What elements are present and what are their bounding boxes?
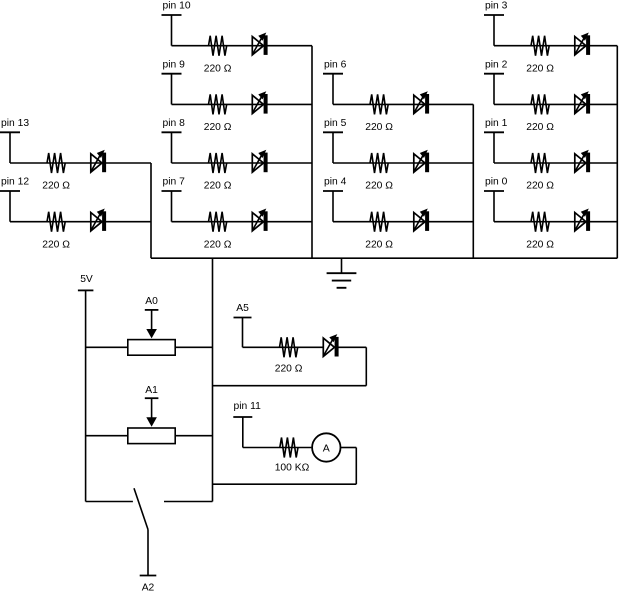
- LED (pin 13 branch): [91, 154, 102, 172]
- LED (pin 3 branch): [575, 37, 586, 55]
- LED (pin 7 branch): [252, 213, 263, 231]
- svg-text:5V: 5V: [80, 274, 93, 285]
- svg-text:pin 8: pin 8: [163, 118, 186, 129]
- wire ammeter to return: [341, 447, 357, 449]
- svg-text:pin 7: pin 7: [163, 177, 186, 188]
- wire pin 9 stem: [171, 74, 173, 105]
- svg-text:A2: A2: [142, 583, 155, 593]
- svg-text:220 Ω: 220 Ω: [42, 239, 70, 250]
- wire 5V to A0: [86, 346, 128, 348]
- svg-text:100 KΩ: 100 KΩ: [275, 462, 310, 473]
- wire pin 0 stem: [493, 191, 495, 222]
- resistor 220 Ω (pin 4 branch): [370, 212, 388, 232]
- wire ammeter return vertical: [355, 448, 357, 485]
- svg-text:A0: A0: [145, 296, 158, 307]
- resistor 220 Ω (pin 1 branch): [531, 153, 549, 173]
- svg-text:pin 6: pin 6: [324, 59, 347, 70]
- resistor 220 Ω (pin 6 branch): [370, 94, 388, 114]
- svg-text:pin 3: pin 3: [485, 1, 508, 12]
- svg-text:A: A: [323, 442, 330, 454]
- LED (pin 1 branch): [575, 154, 586, 172]
- wire A5 row: [243, 346, 323, 348]
- resistor 220 Ω (pin 3 branch): [531, 36, 549, 56]
- wire pin 7 stem: [171, 191, 173, 222]
- wire switch bus left: [86, 501, 133, 503]
- svg-text:220 Ω: 220 Ω: [365, 122, 393, 133]
- svg-text:pin 10: pin 10: [163, 1, 191, 12]
- resistor 100 KΩ: [280, 438, 298, 458]
- switch blade (A2): [134, 488, 148, 529]
- LED (pin 0 branch): [575, 213, 586, 231]
- svg-text:pin 11: pin 11: [234, 401, 262, 412]
- svg-text:220 Ω: 220 Ω: [204, 181, 232, 192]
- wire 5V rail (left vertical): [85, 290, 87, 501]
- resistor 220 Ω (pin 0 branch): [531, 212, 549, 232]
- terminal bar of pin 8: [162, 131, 182, 133]
- wire switch bus right: [164, 501, 213, 503]
- A0 wiper arrow: [146, 310, 157, 339]
- svg-text:220 Ω: 220 Ω: [204, 239, 232, 250]
- wire pin 2 row: [494, 103, 617, 105]
- potentiometer A1 body: [128, 428, 175, 444]
- wire pin 1 row: [494, 162, 617, 164]
- svg-text:220 Ω: 220 Ω: [204, 122, 232, 133]
- wire pin 6 row: [333, 103, 473, 105]
- svg-text:220 Ω: 220 Ω: [275, 364, 303, 375]
- resistor 220 Ω (pin 2 branch): [531, 94, 549, 114]
- wire pin 9 row: [172, 103, 313, 105]
- A2 terminal bar: [140, 575, 157, 577]
- LED (pin 5 branch): [414, 154, 425, 172]
- wire A5 return vertical: [365, 347, 367, 385]
- wire A5 return horizontal: [213, 385, 367, 387]
- 5V terminal bar: [78, 289, 94, 291]
- svg-text:220 Ω: 220 Ω: [526, 63, 554, 74]
- wire 5V to A1: [86, 435, 128, 437]
- LED (pin 12 branch): [91, 213, 102, 231]
- LED (pin 10 branch): [252, 37, 263, 55]
- terminal bar of pin 1: [484, 131, 504, 133]
- wire group-2 bus: [472, 104, 474, 258]
- wire A5 LED to return: [338, 346, 366, 348]
- wire group-3 bus: [616, 46, 618, 259]
- wire pin 5 stem: [332, 132, 334, 163]
- wire group-1 bus: [311, 46, 313, 259]
- wire pin 5 row: [333, 162, 473, 164]
- terminal bar of pin 0: [484, 190, 504, 192]
- svg-text:pin 1: pin 1: [485, 118, 508, 129]
- svg-text:A5: A5: [236, 303, 249, 314]
- svg-text:220 Ω: 220 Ω: [204, 63, 232, 74]
- wire pin 1 stem: [493, 132, 495, 163]
- svg-text:220 Ω: 220 Ω: [42, 181, 70, 192]
- resistor 220 Ω (pin 7 branch): [209, 212, 227, 232]
- wire ground bus: [151, 257, 617, 259]
- wire A2 stem: [147, 530, 149, 576]
- svg-text:220 Ω: 220 Ω: [526, 239, 554, 250]
- terminal bar of pin 6: [323, 73, 343, 75]
- potentiometer A0 body: [128, 340, 175, 356]
- resistor 220 Ω (pin 8 branch): [209, 153, 227, 173]
- wire pin 3 stem: [493, 15, 495, 46]
- svg-text:pin 13: pin 13: [1, 118, 29, 129]
- svg-text:pin 12: pin 12: [1, 177, 29, 188]
- wire pin 2 stem: [493, 74, 495, 105]
- wire A0 to vertical: [175, 346, 212, 348]
- wire pin 13 stem: [9, 132, 11, 163]
- svg-text:pin 0: pin 0: [485, 177, 508, 188]
- wire pin 3 row: [494, 45, 617, 47]
- LED (pin 2 branch): [575, 95, 586, 113]
- wire pin 11 row: [243, 447, 312, 449]
- svg-text:pin 2: pin 2: [485, 59, 508, 70]
- wire pin 8 row: [172, 162, 313, 164]
- terminal bar of pin 7: [162, 190, 182, 192]
- terminal bar of pin 9: [162, 73, 182, 75]
- wire pin 10 stem: [171, 15, 173, 46]
- ground: [327, 258, 357, 288]
- wire pin 7 row: [172, 221, 313, 223]
- LED (pin 8 branch): [252, 154, 263, 172]
- resistor 220 Ω (pin 12 branch): [47, 212, 65, 232]
- A1 terminal bar: [145, 397, 159, 399]
- svg-text:pin 4: pin 4: [324, 177, 347, 188]
- wire left-group bus: [150, 163, 152, 258]
- A1 wiper arrow: [146, 398, 157, 427]
- resistor 220 Ω (pin 9 branch): [209, 94, 227, 114]
- svg-text:220 Ω: 220 Ω: [365, 239, 393, 250]
- wire pin 11 stem: [242, 417, 244, 448]
- resistor 220 Ω (pin 13 branch): [47, 153, 65, 173]
- terminal bar of pin 3: [484, 14, 504, 16]
- wire pin 4 stem: [332, 191, 334, 222]
- LED (A5 branch): [323, 338, 334, 356]
- terminal bar of pin 5: [323, 131, 343, 133]
- wire pin 10 row: [172, 45, 313, 47]
- wire ammeter return horizontal: [213, 483, 357, 485]
- svg-text:220 Ω: 220 Ω: [526, 122, 554, 133]
- wire A5 stem: [242, 318, 244, 348]
- wire pin 0 row: [494, 221, 617, 223]
- wire A1 to vertical: [175, 435, 212, 437]
- svg-text:220 Ω: 220 Ω: [526, 181, 554, 192]
- svg-text:220 Ω: 220 Ω: [365, 181, 393, 192]
- terminal bar of pin 4: [323, 190, 343, 192]
- wire pin 12 stem: [9, 191, 11, 222]
- LED (pin 9 branch): [252, 95, 263, 113]
- wire pin 8 stem: [171, 132, 173, 163]
- terminal bar of pin 13: [0, 131, 20, 133]
- wire ground-bus to lower circuit: [212, 258, 214, 501]
- LED (pin 6 branch): [414, 95, 425, 113]
- LED (pin 4 branch): [414, 213, 425, 231]
- terminal bar of pin 12: [0, 190, 20, 192]
- svg-text:A1: A1: [145, 385, 158, 396]
- resistor 220 Ω (pin 10 branch): [209, 36, 227, 56]
- wire pin 12 row: [10, 221, 151, 223]
- wire pin 4 row: [333, 221, 473, 223]
- resistor 220 Ω (pin 5 branch): [370, 153, 388, 173]
- terminal bar of pin 10: [162, 14, 182, 16]
- terminal bar of pin 2: [484, 73, 504, 75]
- svg-text:pin 5: pin 5: [324, 118, 347, 129]
- ammeter A (U1): [312, 433, 340, 461]
- wire pin 13 row: [10, 162, 151, 164]
- resistor 220 Ω (A5 branch): [280, 337, 298, 357]
- svg-text:pin 9: pin 9: [163, 59, 186, 70]
- pin 11 terminal bar: [233, 416, 252, 418]
- wire pin 6 stem: [332, 74, 334, 105]
- A0 terminal bar: [145, 309, 159, 311]
- A5 terminal bar: [234, 317, 252, 319]
